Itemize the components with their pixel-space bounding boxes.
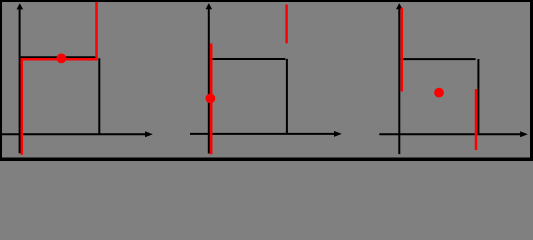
panel 3 red right segment <box>475 89 478 150</box>
panel 3 x-axis <box>379 131 528 137</box>
panel 3 black pulse top edge <box>400 58 475 60</box>
panel 1 black pulse right edge <box>98 58 100 134</box>
panel 3 black pulse right edge <box>477 59 479 134</box>
panel 1 y-axis <box>17 3 24 153</box>
panel 1 black pulse top edge <box>21 56 97 58</box>
panel 3 red left segment <box>401 8 404 92</box>
panel 3 red point marker <box>434 88 444 98</box>
panel 2 red right segment <box>285 4 288 43</box>
panel 1 red pulse curve <box>22 1 97 155</box>
panel 2 black pulse top edge <box>210 58 286 60</box>
border frame <box>0 0 533 2</box>
panel 2 x-axis <box>190 131 342 137</box>
panel 2 red point marker <box>206 94 216 104</box>
panel 2 red left segment <box>210 44 213 155</box>
panel 2 black pulse right edge <box>286 59 288 134</box>
panel 3 y-axis <box>396 3 403 154</box>
panel 2 y-axis <box>206 3 213 153</box>
panel 1 red point marker <box>57 54 67 64</box>
panel 1 x-axis <box>2 131 153 137</box>
